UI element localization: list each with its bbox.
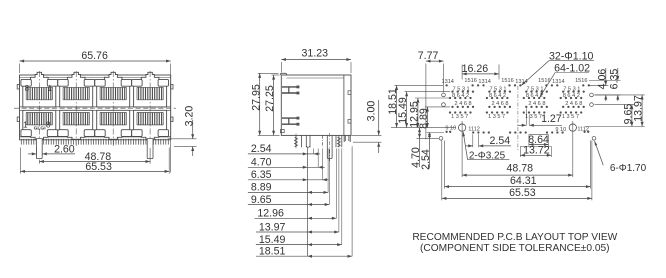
top-row port 3 right ear [121, 79, 131, 86]
svg-text:8.89: 8.89 [418, 108, 430, 129]
svg-text:16.26: 16.26 [462, 63, 489, 75]
svg-text:3.00: 3.00 [365, 101, 377, 122]
solder pin comb under housing [21, 139, 168, 145]
left shield tab upper [17, 85, 19, 90]
port group 1 pin number labels [441, 78, 476, 120]
top-row port 4 right ear [158, 79, 168, 86]
bottom shield hole groups [445, 131, 589, 134]
front foot tab [280, 130, 284, 133]
svg-text:31.23: 31.23 [302, 48, 329, 60]
port group 4 pin number labels [552, 78, 587, 120]
callout 2-phi3.25 [463, 131, 510, 161]
top lid line [286, 77, 344, 79]
svg-text:1314: 1314 [515, 79, 527, 85]
callout 64-1.02 signal holes [540, 62, 591, 97]
dimension 65.76 overall width [20, 50, 171, 172]
svg-text:8 6 4 2: 8 6 4 2 [452, 93, 469, 99]
bottom-row RJ45 port 1 outline [23, 110, 56, 139]
dimension 27.25 body height [264, 75, 279, 135]
port group 3 pin number labels [515, 78, 550, 120]
top-row port 1 contact comb [26, 87, 52, 100]
port group 2 pin number labels [478, 78, 513, 120]
dimension 48.78 peg spacing [39, 148, 150, 164]
right vertical dimension 6.35 [589, 68, 621, 101]
dimension 2.54 hole pitch [466, 134, 512, 147]
svg-text:6.35: 6.35 [608, 69, 620, 90]
housing mid dashed line [14, 107, 176, 109]
bottom-row port 2 contact comb [63, 112, 89, 125]
bottom-row port 2 right ear [84, 130, 94, 137]
svg-text:7 5 3 1: 7 5 3 1 [563, 86, 580, 92]
svg-text:6.35: 6.35 [251, 169, 272, 181]
svg-text:1112: 1112 [468, 127, 480, 133]
bottom-row port 1 contact comb [26, 112, 52, 125]
front face EMI tab lower [282, 117, 299, 125]
svg-text:12.96: 12.96 [257, 208, 284, 220]
front face EMI tab upper [282, 86, 299, 94]
svg-text:9.65: 9.65 [251, 194, 272, 206]
right shield tab upper [171, 85, 173, 90]
svg-text:2 4 6 8: 2 4 6 8 [491, 101, 508, 107]
svg-text:2.60: 2.60 [54, 144, 75, 156]
right vertical dimension 9.65 [595, 104, 635, 127]
top-row port 3 contact comb [100, 87, 126, 100]
dimension 48.78 hole spacing [462, 121, 573, 177]
dimension 27.95 overall height [250, 73, 279, 135]
bottom-row port 3 right ear [121, 130, 131, 137]
svg-text:2.54: 2.54 [420, 149, 432, 170]
phi 1.70 side holes [442, 93, 446, 97]
bottom-row port 4 contact comb [137, 112, 163, 125]
top-row RJ45 port 2 outline [60, 72, 93, 107]
front pin centerline [295, 134, 297, 150]
svg-text:1.27: 1.27 [541, 113, 562, 125]
bottom-row port 2 left ear [58, 130, 68, 137]
bottom-row port 4 right ear [158, 130, 168, 137]
svg-text:8 6 4 2: 8 6 4 2 [563, 93, 580, 99]
right vertical dimension 13.97 [585, 95, 645, 127]
left vertical dimension 2.54 [420, 133, 444, 170]
dimension 9.65 pin offset [248, 149, 329, 207]
svg-text:8: 8 [46, 120, 51, 129]
top-row RJ45 port 3 outline [97, 72, 130, 107]
port group 2 signal holes [482, 84, 516, 113]
dimension 13.97 pin offset [256, 149, 339, 234]
svg-text:2 4 6 8: 2 4 6 8 [455, 101, 472, 107]
svg-text:15.49: 15.49 [397, 97, 409, 124]
svg-text:15.49: 15.49 [259, 234, 286, 246]
svg-text:1: 1 [23, 120, 28, 129]
bottom-row port 1 right ear [47, 130, 57, 137]
top-row port 1 right ear [47, 79, 57, 86]
svg-text:1516: 1516 [464, 78, 476, 84]
svg-text:9 10: 9 10 [445, 126, 456, 132]
peg centerline [329, 133, 331, 161]
port column 2 centerline [75, 71, 77, 147]
dimension 8.89 pin offset [248, 149, 328, 194]
dimension 3.20 pin length [168, 106, 197, 156]
svg-text:13.97: 13.97 [633, 95, 645, 122]
svg-text:65.53: 65.53 [509, 187, 536, 199]
top-row RJ45 port 1 outline [23, 72, 56, 107]
svg-text:1 3 5 7: 1 3 5 7 [525, 114, 542, 120]
pcb standoff peg (side) [327, 135, 332, 158]
left shield tab lower [17, 117, 19, 122]
callout 32-phi1.10 shield holes [521, 50, 594, 86]
left vertical dimension 8.89 [418, 107, 450, 129]
svg-text:1314: 1314 [552, 79, 564, 85]
dimension 13.72 [520, 145, 551, 157]
dimension 31.23 body depth [281, 48, 351, 73]
connector housing outline [20, 75, 171, 140]
coil spring pins [295, 135, 341, 147]
right vertical dimension 4.06 [589, 68, 609, 101]
svg-text:9 10: 9 10 [555, 127, 566, 133]
dimension 15.49 pin offset [256, 149, 342, 247]
svg-text:1 3 5 7: 1 3 5 7 [451, 114, 468, 120]
dimension 1.27 hole stagger [517, 109, 562, 127]
svg-text:65.76: 65.76 [81, 50, 108, 62]
port column 3 centerline [112, 71, 114, 147]
port column 4 centerline [149, 71, 151, 147]
svg-text:8.89: 8.89 [251, 182, 272, 194]
left vertical dimension 4.70 [410, 128, 439, 168]
svg-text:1516: 1516 [575, 78, 587, 84]
bottom-row port 1 left ear [21, 130, 31, 137]
svg-text:1516: 1516 [501, 78, 513, 84]
svg-text:7 5 3 1: 7 5 3 1 [489, 86, 506, 92]
hidden pin dashed [321, 135, 323, 147]
svg-text:2.54: 2.54 [251, 143, 272, 155]
svg-text:2 4 6 8: 2 4 6 8 [565, 101, 582, 107]
svg-text:1: 1 [48, 84, 53, 93]
top-row port 2 contact comb [63, 87, 89, 100]
svg-text:GLGI: GLGI [34, 125, 47, 131]
dimension 3.00 standoff height [352, 100, 382, 153]
dimension 65.53 overall [442, 141, 592, 201]
left vertical dimension 12.95 [409, 98, 450, 128]
phi 3.25 locating holes [458, 124, 465, 131]
through-hole pins (side view) [302, 135, 351, 147]
svg-text:64.31: 64.31 [510, 175, 537, 187]
svg-text:1 3 5 7: 1 3 5 7 [562, 114, 579, 120]
svg-text:4.06: 4.06 [596, 69, 608, 90]
top-row port 4 left ear [132, 79, 142, 86]
svg-text:RECOMMENDED P.C.B LAYOUT TOP V: RECOMMENDED P.C.B LAYOUT TOP VIEW [412, 232, 617, 243]
svg-text:1314: 1314 [478, 79, 490, 85]
left vertical dimension 15.49 [397, 92, 450, 128]
left vertical dimension 18.51 [387, 85, 456, 127]
rear flange line [343, 75, 345, 135]
dimension 16.26 port pitch [462, 63, 499, 80]
svg-text:6-Φ1.70: 6-Φ1.70 [610, 163, 647, 174]
svg-text:8: 8 [25, 84, 30, 93]
top-row port 1 left ear [21, 79, 31, 86]
pcb center dashed line [517, 86, 519, 151]
svg-text:13.97: 13.97 [259, 221, 286, 233]
svg-text:2 4 6 8: 2 4 6 8 [528, 101, 545, 107]
dimension 12.96 pin offset [254, 149, 336, 220]
PCB locating peg left [36, 139, 42, 159]
bottom-row port 4 left ear [132, 130, 142, 137]
ladder datum line [306, 148, 308, 256]
svg-text:48.78: 48.78 [507, 162, 534, 174]
ladder far extension line [351, 146, 353, 256]
port group 4 signal holes [556, 84, 590, 113]
dimension 18.51 pin offset [256, 246, 352, 258]
svg-text:3.20: 3.20 [183, 106, 195, 127]
top-row port 3 left ear [95, 79, 105, 86]
top-row port 2 right ear [84, 79, 94, 86]
bottom-row RJ45 port 2 outline [60, 110, 93, 139]
dimension 8.64 [528, 134, 549, 147]
PCB locating peg right [147, 139, 153, 159]
svg-text:18.51: 18.51 [259, 246, 286, 258]
right shield tab lower [171, 117, 173, 122]
top latch ridge [281, 73, 288, 75]
svg-text:4.70: 4.70 [251, 157, 272, 169]
svg-text:27.25: 27.25 [264, 85, 276, 112]
bottom-row port 3 left ear [95, 130, 105, 137]
dimension 7.77 [418, 50, 444, 139]
svg-text:1112: 1112 [577, 126, 589, 132]
callout 6-phi1.70 [594, 140, 646, 174]
bottom-row port 3 contact comb [100, 112, 126, 125]
svg-text:2.54: 2.54 [489, 135, 510, 147]
rear flange hole upper [348, 91, 351, 95]
svg-text:7 5 3 1: 7 5 3 1 [453, 86, 470, 92]
top-row port 4 contact comb [137, 87, 163, 100]
svg-text:1 3 5 7: 1 3 5 7 [488, 114, 505, 120]
dimension 2.60 peg width [28, 144, 75, 156]
svg-text:27.95: 27.95 [250, 84, 262, 111]
port group 1 signal holes [445, 84, 479, 113]
dimension 2.54 pin offset [248, 143, 320, 155]
side view body outline [281, 75, 351, 135]
dimension 64.31 [445, 141, 591, 189]
top-row port 2 left ear [58, 79, 68, 86]
dimension 6.35 pin offset [248, 149, 329, 182]
svg-text:8 6 4 2: 8 6 4 2 [489, 93, 506, 99]
port column 1 centerline [38, 71, 40, 147]
svg-text:(COMPONENT SIDE TOLERANCE±0.05: (COMPONENT SIDE TOLERANCE±0.05) [420, 243, 610, 254]
svg-text:7.77: 7.77 [418, 50, 439, 62]
rear flange hole lower [348, 120, 351, 124]
dimension 4.70 pin offset [248, 149, 325, 169]
bottom-row RJ45 port 3 outline [97, 110, 130, 139]
svg-text:13.72: 13.72 [523, 145, 550, 157]
svg-text:7 5 3 1: 7 5 3 1 [526, 86, 543, 92]
svg-text:65.53: 65.53 [85, 161, 112, 173]
port group 3 signal holes [519, 84, 553, 113]
top-row RJ45 port 4 outline [134, 72, 167, 107]
bottom-row RJ45 port 4 outline [134, 110, 167, 139]
dimension 65.53 pin row width [20, 148, 169, 174]
